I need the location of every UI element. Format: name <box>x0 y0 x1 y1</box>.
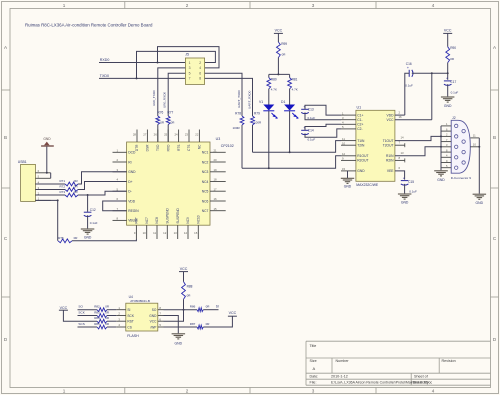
capacitor C15 <box>401 175 409 185</box>
svg-text:11: 11 <box>473 134 476 138</box>
wire VCC to RST row <box>63 310 97 321</box>
resistor R90 <box>446 47 450 63</box>
junction <box>478 146 480 148</box>
junction <box>46 172 48 174</box>
wire USB pin2 <box>35 194 65 196</box>
svg-text:Ruimas R8C-LX36A Air-condition: Ruimas R8C-LX36A Air-condition Remote Co… <box>25 23 153 28</box>
svg-text:2: 2 <box>186 3 189 8</box>
ground C12 <box>81 229 95 239</box>
junction <box>136 77 138 79</box>
svg-text:VCC: VCC <box>150 320 157 324</box>
wire to R80 <box>268 74 270 77</box>
power VCC pullup <box>179 267 188 272</box>
wire WP row <box>164 326 198 328</box>
connector USB1 <box>18 160 51 202</box>
svg-text:10: 10 <box>342 141 346 145</box>
ground J2 bus <box>434 171 448 182</box>
svg-text:RTS: RTS <box>177 145 181 151</box>
svg-text:UR0_TXD0: UR0_TXD0 <box>152 90 156 106</box>
power VCC right <box>443 29 452 34</box>
resistor R72 <box>65 188 78 192</box>
wire C16 right to node <box>412 72 448 74</box>
svg-text:15: 15 <box>214 207 218 211</box>
net label UART_TXD0 <box>237 90 241 108</box>
svg-text:SUSPEND: SUSPEND <box>166 207 170 223</box>
svg-text:UART_RXD0: UART_RXD0 <box>247 90 251 109</box>
U1 right pin names <box>383 113 395 173</box>
svg-text:T1IN: T1IN <box>357 139 365 143</box>
wire J5 pin6 down <box>205 73 242 116</box>
wire C16 left to VDD <box>405 73 409 115</box>
title block <box>306 341 491 385</box>
U3 top pins <box>133 130 202 152</box>
resistor R78 <box>240 116 244 125</box>
wire USB shield bridge <box>50 173 52 179</box>
J2 pin stubs <box>441 122 451 168</box>
svg-text:4.7K: 4.7K <box>292 87 298 91</box>
svg-text:R78: R78 <box>235 112 241 116</box>
svg-text:27: 27 <box>143 132 147 136</box>
svg-text:GND: GND <box>149 314 157 318</box>
U3 bottom pins <box>134 207 201 239</box>
svg-text:R84: R84 <box>94 316 100 320</box>
svg-text:0.1uF: 0.1uF <box>308 137 316 141</box>
svg-text:1: 1 <box>189 61 191 65</box>
power VCC flash left <box>59 306 68 310</box>
resistor R77 <box>166 116 170 125</box>
svg-text:23: 23 <box>185 132 189 136</box>
wire C13 top to C1+ <box>305 105 341 115</box>
svg-text:16: 16 <box>399 115 403 119</box>
svg-text:R86: R86 <box>190 305 196 309</box>
wire R73 to U3 D- <box>78 191 127 195</box>
svg-text:14: 14 <box>401 136 405 140</box>
power VCC right flash <box>228 311 237 316</box>
wire U1 VDD stub <box>395 114 405 116</box>
svg-text:4: 4 <box>432 3 435 8</box>
wire U4 left row 1b <box>107 309 116 311</box>
svg-text:VEE: VEE <box>387 169 394 173</box>
svg-text:20: 20 <box>214 158 218 162</box>
svg-text:11: 11 <box>153 231 156 235</box>
svg-text:GND: GND <box>437 178 445 182</box>
wire R78 down <box>241 125 243 168</box>
svg-text:2010-1-12: 2010-1-12 <box>331 375 348 379</box>
svg-text:VCC: VCC <box>229 311 237 315</box>
wire U4 left row 2b <box>107 315 116 317</box>
svg-text:J2: J2 <box>452 116 456 120</box>
svg-text:R76: R76 <box>157 110 163 114</box>
connector J5 <box>185 53 204 85</box>
svg-text:10: 10 <box>143 231 147 235</box>
junction <box>157 62 159 64</box>
svg-text:SO: SO <box>78 305 83 309</box>
net label RXD0 <box>100 58 110 62</box>
wire C15 to ground <box>404 184 406 194</box>
svg-text:26: 26 <box>154 132 158 136</box>
svg-text:Title: Title <box>310 344 317 348</box>
svg-text:R77: R77 <box>167 110 173 114</box>
wire U4 left row 4a <box>78 326 98 328</box>
wire U4 left row 1a <box>78 309 98 311</box>
svg-text:CTS: CTS <box>187 145 191 151</box>
op-amp U1 MAX232 body <box>356 106 395 187</box>
junction <box>289 151 291 153</box>
wire U1 GND down <box>347 171 349 178</box>
capacitor C12 <box>84 212 92 216</box>
junction <box>447 72 449 74</box>
svg-text:0.1uF: 0.1uF <box>405 83 413 87</box>
wire UART_RXD0 to U1 T1IN <box>253 141 342 153</box>
junction <box>87 194 89 196</box>
svg-text:SCK: SCK <box>127 314 134 318</box>
wire C12 to ground <box>87 215 89 228</box>
svg-text:0.1uF: 0.1uF <box>90 221 98 225</box>
junction <box>440 146 442 148</box>
wire J5 pin3 down <box>158 68 186 116</box>
wire R71 to U3 GND <box>78 172 127 184</box>
svg-text:GND: GND <box>401 201 409 205</box>
svg-text:GND: GND <box>476 201 484 205</box>
net label TXD0 <box>100 74 109 78</box>
capacitor C17 <box>444 76 452 86</box>
svg-text:R88: R88 <box>187 285 193 289</box>
wire node to VCC pin <box>431 73 433 119</box>
ground U4 <box>172 334 186 346</box>
svg-text:12: 12 <box>342 152 346 156</box>
svg-text:5: 5 <box>189 72 191 76</box>
svg-text:T2IN: T2IN <box>357 144 365 148</box>
svg-text:C12: C12 <box>90 208 96 212</box>
resistor R85 <box>97 325 107 329</box>
resistor R84 <box>97 319 107 323</box>
pin T2OUT stub <box>395 141 405 148</box>
wire TXD0 to J5 pin7 <box>99 77 185 79</box>
svg-text:4: 4 <box>199 66 201 70</box>
title block text <box>310 344 456 385</box>
wire TXD0 branch to J5 pin2 <box>137 51 216 78</box>
svg-text:NC8: NC8 <box>155 217 159 224</box>
ground label USB <box>43 137 51 141</box>
svg-text:13: 13 <box>174 231 178 235</box>
svg-text:16: 16 <box>214 197 218 201</box>
junction <box>431 72 433 74</box>
svg-text:Sheet of: Sheet of <box>414 375 429 379</box>
junction <box>183 309 185 311</box>
svg-text:RST: RST <box>135 217 139 223</box>
svg-text:File:: File: <box>310 381 317 385</box>
wire USB pin1 <box>35 199 57 201</box>
svg-text:NC9: NC9 <box>186 217 190 224</box>
svg-text:2: 2 <box>199 61 201 65</box>
svg-text:R2IN: R2IN <box>386 159 394 163</box>
junction <box>440 135 442 137</box>
svg-text:REGIN: REGIN <box>128 209 139 213</box>
svg-text:NC2: NC2 <box>202 160 209 164</box>
svg-text:RI: RI <box>128 160 131 164</box>
svg-text:19: 19 <box>214 168 218 172</box>
wire J5 pin5 down <box>168 73 185 116</box>
svg-text:D+: D+ <box>128 180 132 184</box>
svg-text:GND: GND <box>357 169 365 173</box>
svg-text:28: 28 <box>133 132 137 136</box>
svg-text:VDD: VDD <box>128 199 136 203</box>
resistor R99 <box>277 42 281 58</box>
svg-text:13: 13 <box>401 151 405 155</box>
wire U3 VDD REGIN bridge <box>103 201 127 211</box>
wire R80 to V1 <box>268 89 270 105</box>
wire USB pin3 <box>35 189 65 191</box>
svg-text:U3: U3 <box>216 137 221 141</box>
resistor R83 <box>97 314 107 318</box>
svg-text:C15: C15 <box>408 180 414 184</box>
wire T1OUT to J2 pin2 <box>395 136 441 140</box>
junction <box>268 167 270 169</box>
svg-text:R90: R90 <box>450 46 456 50</box>
svg-text:R71: R71 <box>60 179 66 183</box>
wire SO row <box>164 309 198 311</box>
wire USB pin4 <box>35 183 65 185</box>
wire RXD0 branch to J5 pin4 <box>158 47 220 68</box>
svg-text:VCC: VCC <box>444 29 452 33</box>
svg-text:CS: CS <box>127 325 131 329</box>
svg-text:TXD: TXD <box>156 144 160 151</box>
svg-text:NC10: NC10 <box>197 215 201 223</box>
resistor R88 <box>182 282 186 300</box>
svg-text:FLASH: FLASH <box>127 334 139 338</box>
wire V1 cathode down <box>268 111 270 169</box>
power VCC top <box>274 29 283 34</box>
wire R77 to U3 RXD <box>167 125 169 143</box>
resistor R71 <box>65 182 78 186</box>
svg-text:GND: GND <box>444 104 452 108</box>
svg-text:22: 22 <box>195 132 199 136</box>
svg-text:R85: R85 <box>94 322 100 326</box>
wire R86 to net SI <box>203 309 218 311</box>
svg-text:RXD: RXD <box>166 144 170 151</box>
svg-text:R2OUT: R2OUT <box>357 159 368 163</box>
wire U4 left row 4b <box>107 326 116 328</box>
svg-text:NC7: NC7 <box>202 209 209 213</box>
svg-text:SUSPEND: SUSPEND <box>176 207 180 223</box>
svg-text:14: 14 <box>184 231 188 235</box>
svg-text:NC4: NC4 <box>202 180 209 184</box>
J2 shell pins 11 10 <box>470 134 479 147</box>
svg-text:R83: R83 <box>94 310 100 314</box>
connector J2 D-sub shell <box>451 116 470 173</box>
wire UART_TXD0 to U1 R1OUT <box>242 156 341 169</box>
svg-text:C1+: C1+ <box>357 113 363 117</box>
svg-text:D-: D- <box>128 190 131 194</box>
svg-text:12: 12 <box>163 231 167 235</box>
svg-text:TXD0: TXD0 <box>100 74 109 78</box>
svg-text:B: B <box>4 135 7 140</box>
capacitor C13 <box>301 104 309 114</box>
svg-text:USB1: USB1 <box>18 160 27 164</box>
svg-text:1: 1 <box>63 3 66 8</box>
svg-text:24: 24 <box>174 132 178 136</box>
wire R99 to rail <box>277 58 279 75</box>
wire D1 cathode down <box>289 111 291 152</box>
resistor R81 <box>288 78 292 89</box>
svg-text:4.7K: 4.7K <box>271 87 277 91</box>
J2 pin circles <box>455 124 466 169</box>
svg-text:NC3: NC3 <box>202 170 209 174</box>
wire RXD0 to J5 pin1 <box>99 62 185 64</box>
wire C17 to ground <box>447 84 449 96</box>
svg-text:NC1: NC1 <box>202 151 209 155</box>
svg-text:15: 15 <box>194 231 198 235</box>
svg-text:A: A <box>313 366 316 371</box>
wire VCC stem right <box>447 33 449 46</box>
svg-text:GND: GND <box>175 341 183 345</box>
svg-text:T1OUT: T1OUT <box>383 139 394 143</box>
svg-text:4: 4 <box>432 389 435 394</box>
svg-text:RXD0: RXD0 <box>100 58 110 62</box>
svg-text:MAX232C/WE: MAX232C/WE <box>356 183 379 187</box>
junction <box>277 73 279 75</box>
svg-text:C16: C16 <box>406 62 412 66</box>
svg-text:3: 3 <box>189 66 191 70</box>
svg-text:UR0_RXD0: UR0_RXD0 <box>163 92 167 108</box>
wire R1IN to J2 pin3 <box>395 147 441 156</box>
svg-text:R72: R72 <box>60 185 66 189</box>
wire USB gnd down <box>46 147 48 173</box>
svg-text:3: 3 <box>312 389 315 394</box>
wire GND pin down <box>164 316 179 334</box>
svg-text:21: 21 <box>214 149 218 153</box>
wire U4 left row 3b <box>107 320 116 322</box>
junction <box>57 199 59 201</box>
wire C13 bottom to C1- <box>305 112 341 119</box>
svg-text:R82: R82 <box>94 305 100 309</box>
resistor R76 <box>156 116 160 125</box>
wire VCC to R88 <box>183 272 185 282</box>
svg-text:GND: GND <box>344 185 352 189</box>
svg-text:Number: Number <box>336 359 350 363</box>
svg-text:VCC: VCC <box>387 118 395 122</box>
resistor R79 <box>251 116 255 125</box>
svg-text:100R: 100R <box>233 126 241 130</box>
wire down to R75 run <box>57 200 59 240</box>
svg-text:CP2102: CP2102 <box>221 144 234 148</box>
svg-text:Date:: Date: <box>310 375 319 379</box>
svg-text:GND: GND <box>43 137 51 141</box>
svg-text:T2OUT: T2OUT <box>383 144 394 148</box>
wire LED rail <box>269 73 290 75</box>
wire U1 VCC to C16 node <box>395 119 432 121</box>
svg-text:/WP: /WP <box>150 325 156 329</box>
svg-text:100R: 100R <box>254 120 262 124</box>
svg-text:C2+: C2+ <box>357 123 363 127</box>
ground U1 <box>341 178 354 188</box>
svg-text:U1: U1 <box>357 106 362 110</box>
wire R90 to C17 <box>447 63 449 80</box>
wire R87 to VCC <box>203 316 232 327</box>
ground J2 shell <box>473 194 487 205</box>
svg-text:C1-: C1- <box>357 118 362 122</box>
ground C15 <box>398 194 412 205</box>
svg-text:NC: NC <box>198 144 202 149</box>
wire U3 RST down to R75 <box>72 239 136 241</box>
svg-text:VCC: VCC <box>60 306 68 310</box>
U1 left pins <box>341 111 368 173</box>
svg-text:C14: C14 <box>308 129 314 133</box>
svg-text:8: 8 <box>199 77 201 81</box>
svg-text:V1: V1 <box>259 100 263 104</box>
wire R81 to D1 <box>289 89 291 105</box>
svg-text:D1: D1 <box>281 100 285 104</box>
svg-text:0.1uF: 0.1uF <box>451 91 459 95</box>
svg-text:RST: RST <box>127 320 133 324</box>
IC U4 AT45DB041 body <box>126 295 158 338</box>
svg-text:7: 7 <box>189 77 191 81</box>
svg-text:NC5: NC5 <box>202 190 209 194</box>
U4 pins <box>116 306 163 329</box>
svg-text:Revision: Revision <box>442 359 456 363</box>
resistor R82 <box>97 308 107 312</box>
svg-text:GND: GND <box>128 170 136 174</box>
LED D1 <box>281 100 298 118</box>
pin R2IN stub <box>395 156 405 163</box>
wire C14 bottom to C2- <box>305 129 341 137</box>
ground C17 <box>441 97 455 108</box>
wire U4 left row 2a <box>78 315 98 317</box>
svg-text:C13: C13 <box>308 108 314 112</box>
svg-text:B: B <box>493 135 496 140</box>
svg-text:2: 2 <box>186 389 189 394</box>
svg-text:11: 11 <box>342 137 345 141</box>
svg-text:DCD: DCD <box>128 151 136 155</box>
wire J2 ground bus <box>440 126 442 170</box>
net label UR0_RXD0 <box>163 92 167 108</box>
svg-text:Size: Size <box>310 359 317 363</box>
svg-text:VCC: VCC <box>275 29 283 33</box>
svg-text:SO: SO <box>152 308 157 312</box>
svg-text:R1IN: R1IN <box>386 154 394 158</box>
wire R79 down <box>252 125 254 152</box>
wire to C12 <box>87 195 89 212</box>
svg-text:DTR: DTR <box>135 144 139 151</box>
svg-text:UART_TXD0: UART_TXD0 <box>237 90 241 108</box>
resistor R75 <box>58 239 72 243</box>
svg-text:SI: SI <box>127 308 130 312</box>
capacitor C16 <box>407 65 413 77</box>
svg-text:R99: R99 <box>281 42 287 46</box>
wire shell to ground <box>478 138 480 194</box>
svg-text:VCC: VCC <box>180 267 188 271</box>
svg-text:1: 1 <box>63 389 66 394</box>
resistor R86 <box>197 308 203 312</box>
svg-text:SCK: SCK <box>78 310 85 314</box>
LED V1 <box>259 100 278 118</box>
svg-text:18: 18 <box>214 178 218 182</box>
wire VCC stem <box>277 33 279 42</box>
svg-text:3: 3 <box>312 3 315 8</box>
svg-text:VDD: VDD <box>387 113 395 117</box>
svg-text:Drawn By:: Drawn By: <box>413 381 430 385</box>
svg-text:15: 15 <box>342 167 346 171</box>
svg-text:NC6: NC6 <box>202 199 209 203</box>
resistor R80 <box>267 78 271 89</box>
svg-text:SI: SI <box>216 305 219 309</box>
svg-text:R1OUT: R1OUT <box>357 154 368 158</box>
svg-text:25: 25 <box>164 132 168 136</box>
sheet title text <box>25 23 153 28</box>
wire J5 pin8 down <box>205 78 253 116</box>
wire R76 to U3 TXD <box>157 125 159 143</box>
U3 right pins <box>202 149 226 214</box>
